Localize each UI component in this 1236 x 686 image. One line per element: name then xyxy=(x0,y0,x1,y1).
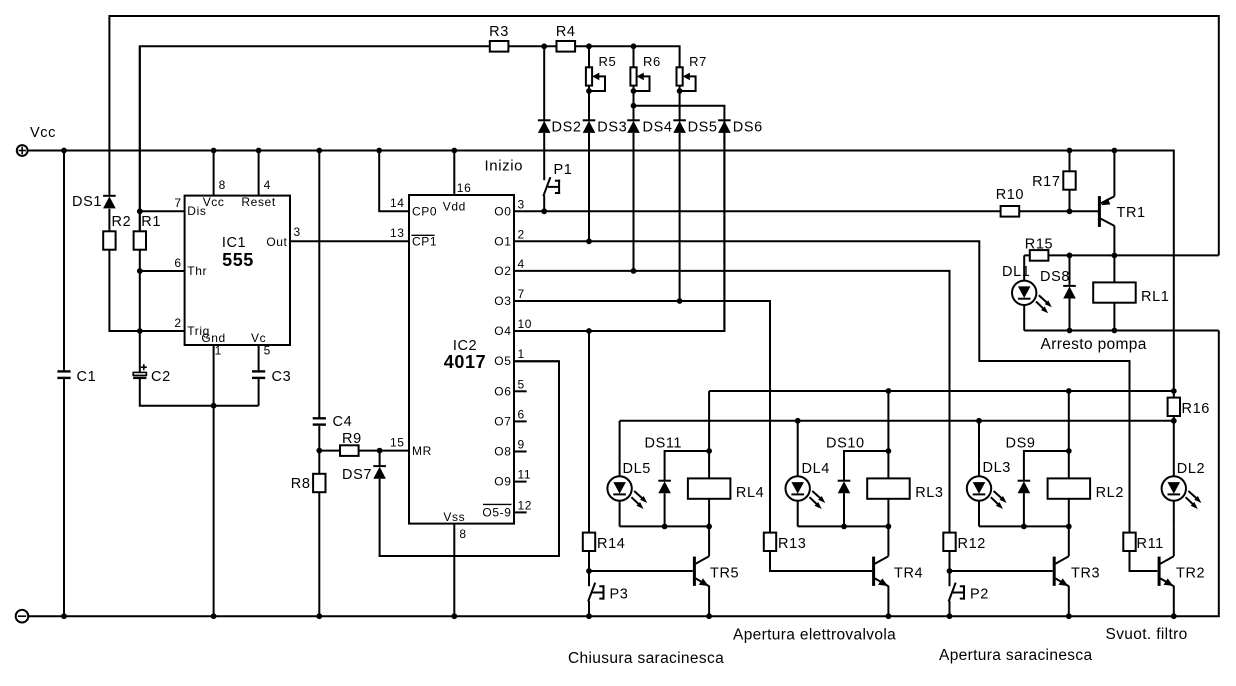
junction row / RL1 / TR1 xyxy=(1112,253,1118,259)
resistor R15 xyxy=(1025,237,1053,261)
svg-text:15: 15 xyxy=(390,436,405,450)
svg-text:Chiusura saracinesca: Chiusura saracinesca xyxy=(568,650,724,667)
junction ground rail / IC1 Gnd xyxy=(211,613,217,619)
wire CP0 jog xyxy=(379,151,409,212)
wire R9 left lead xyxy=(319,450,340,452)
wire IC1 Gnd column xyxy=(213,345,215,616)
label Apertura elettrovalvola xyxy=(733,627,896,644)
svg-text:DS5: DS5 xyxy=(688,120,718,136)
LED DL3 xyxy=(967,460,1011,509)
label Apertura saracinesca xyxy=(939,647,1092,664)
wire RL3 bottom lead xyxy=(887,499,889,527)
wire IC1 Out to IC2 CP1 xyxy=(290,240,409,242)
junction row A / RL2 xyxy=(1066,388,1072,394)
junction Dis / R1 xyxy=(137,208,143,214)
wire DL4 top lead xyxy=(797,421,799,477)
svg-text:Out: Out xyxy=(266,235,287,249)
wire R3-R4 segment xyxy=(508,45,556,47)
svg-text:3: 3 xyxy=(294,225,301,239)
junction feed / R5 xyxy=(586,43,592,49)
diode DS5 xyxy=(673,120,717,136)
junction R6 wiper xyxy=(631,88,637,94)
capacitor C1 xyxy=(57,369,96,385)
junction ground / P3 xyxy=(586,613,592,619)
wire O4 row xyxy=(514,121,724,331)
junction O2 / DS4 xyxy=(631,268,637,274)
label Chiusura saracinesca xyxy=(568,650,724,667)
svg-text:C2: C2 xyxy=(151,369,171,385)
junction Vcc rail / R17 xyxy=(1067,148,1073,154)
junction DS11 / RL4 column xyxy=(706,448,712,454)
wire R6 to DS4 xyxy=(633,91,635,122)
junction bottom row / RL1 xyxy=(1112,328,1118,334)
svg-text:R8: R8 xyxy=(291,476,311,492)
wire R17 top lead xyxy=(1069,151,1071,172)
junction O3 / DS5 xyxy=(677,298,683,304)
wire top border (feedback to TR1 emitter node) xyxy=(109,16,1218,255)
junction ground rail / Vss xyxy=(451,613,457,619)
svg-text:RL4: RL4 xyxy=(736,485,764,501)
svg-text:9: 9 xyxy=(518,438,525,452)
resistor R16 xyxy=(1168,398,1210,417)
wire module3 bottom row xyxy=(979,525,1069,527)
svg-text:8: 8 xyxy=(219,178,226,192)
junction R17 / TR1 base xyxy=(1067,208,1073,214)
wire C4 column xyxy=(318,151,320,451)
svg-text:DS9: DS9 xyxy=(1006,436,1036,452)
svg-text:P2: P2 xyxy=(970,587,989,603)
svg-text:2: 2 xyxy=(174,316,181,330)
junction ground rail / C1 xyxy=(61,613,67,619)
transistor TR5 (NPN) xyxy=(694,526,739,616)
wire Dis stub xyxy=(140,210,185,212)
svg-text:R14: R14 xyxy=(597,536,625,552)
wire R8 to ground xyxy=(318,492,320,616)
svg-text:8: 8 xyxy=(459,527,466,541)
svg-text:RL1: RL1 xyxy=(1141,289,1169,305)
junction O1 / DS3 xyxy=(586,238,592,244)
svg-text:O7: O7 xyxy=(494,414,511,428)
svg-text:3: 3 xyxy=(518,197,525,211)
svg-text:O4: O4 xyxy=(494,324,511,338)
junction C4 / R9 / R8 xyxy=(316,448,322,454)
svg-text:DL1: DL1 xyxy=(1002,264,1030,280)
wire RL1 top lead xyxy=(1113,255,1115,282)
resistor R12 xyxy=(943,533,986,552)
wire O0 row xyxy=(514,210,1001,212)
wire Vcc rail xyxy=(28,151,1174,392)
svg-text:Apertura elettrovalvola: Apertura elettrovalvola xyxy=(733,627,896,644)
resistor R2 xyxy=(103,214,131,250)
svg-text:6: 6 xyxy=(174,256,181,270)
svg-text:P3: P3 xyxy=(610,587,629,603)
wire row B (LED supply) xyxy=(620,420,1174,422)
Vcc supply terminal (+) xyxy=(17,125,56,156)
svg-text:DL3: DL3 xyxy=(983,460,1011,476)
svg-text:555: 555 xyxy=(222,250,254,270)
junction Vcc rail / CP0 xyxy=(376,148,382,154)
junction bottom / RL4 / TR5 xyxy=(706,524,712,530)
svg-text:R15: R15 xyxy=(1025,237,1053,253)
relay RL1 xyxy=(1093,282,1169,305)
svg-text:14: 14 xyxy=(390,196,405,210)
svg-text:R13: R13 xyxy=(778,536,806,552)
relay RL3 xyxy=(867,478,943,501)
resistor R17 xyxy=(1032,171,1076,190)
svg-text:Vdd: Vdd xyxy=(443,200,466,214)
pushbutton P3 xyxy=(588,571,628,616)
junction ground / TR3 emitter xyxy=(1066,613,1072,619)
wire DL3 bottom lead xyxy=(978,501,980,527)
transistor TR2 (NPN) xyxy=(1159,526,1205,616)
svg-text:DS8: DS8 xyxy=(1040,269,1070,285)
wire TR5 base row xyxy=(589,570,693,572)
svg-text:Reset: Reset xyxy=(241,195,275,209)
svg-text:R2: R2 xyxy=(112,214,132,230)
junction R9 / DS7 / MR xyxy=(377,448,383,454)
capacitor C4 xyxy=(313,414,353,430)
svg-text:DL5: DL5 xyxy=(623,461,651,477)
wire IC2 Vss column xyxy=(453,524,455,617)
wire DL2 top lead xyxy=(1173,421,1175,477)
wire IC2 Vdd pin 16 column xyxy=(453,151,455,196)
svg-text:4017: 4017 xyxy=(444,352,486,372)
svg-text:10: 10 xyxy=(518,317,533,331)
wire R13 bottom lead xyxy=(770,551,872,571)
svg-text:DS11: DS11 xyxy=(645,436,683,452)
junction Vcc rail / C1 xyxy=(61,148,67,154)
diode DS8 xyxy=(1040,269,1076,299)
svg-text:RL3: RL3 xyxy=(915,485,943,501)
svg-text:DS3: DS3 xyxy=(597,120,627,136)
svg-text:P1: P1 xyxy=(554,162,573,178)
pushbutton P2 xyxy=(949,571,989,616)
wire R1 to C2 xyxy=(139,250,141,373)
pin stub y=481.6 xyxy=(514,481,527,483)
svg-text:R3: R3 xyxy=(489,24,509,40)
wire RL3 column top xyxy=(887,391,889,478)
svg-text:C1: C1 xyxy=(77,369,97,385)
junction ground / TR2 emitter xyxy=(1171,613,1177,619)
svg-text:13: 13 xyxy=(390,226,405,240)
svg-text:R10: R10 xyxy=(996,187,1024,203)
wire DL4 bottom lead xyxy=(797,501,799,527)
svg-text:R6: R6 xyxy=(643,54,661,69)
junction row / DS8 xyxy=(1067,253,1073,259)
wire DL1 branch xyxy=(1023,255,1025,280)
wire C3 to bottom row xyxy=(258,379,260,406)
wire Thr stub xyxy=(140,270,185,272)
trimmer R5 xyxy=(586,54,616,92)
svg-text:Inizio: Inizio xyxy=(485,157,524,174)
svg-text:TR4: TR4 xyxy=(894,566,923,582)
resistor R9 xyxy=(340,431,362,456)
LED DL5 xyxy=(607,461,651,509)
wire R5 to DS3 xyxy=(588,91,590,122)
svg-text:5: 5 xyxy=(518,377,525,391)
svg-text:CP0: CP0 xyxy=(412,205,437,219)
label Svuot. filtro xyxy=(1106,626,1188,643)
wire R14 top lead xyxy=(588,331,590,533)
wire R2 to Trig row xyxy=(109,250,184,331)
resistor R8 xyxy=(291,474,326,492)
svg-text:O1: O1 xyxy=(494,234,511,248)
pin stub y=421.4 xyxy=(514,420,527,422)
junction row B / DL3 xyxy=(976,418,982,424)
capacitor C3 xyxy=(252,369,291,385)
wire DS5 to O3 xyxy=(679,133,681,301)
wire O2 row + jog to R12 xyxy=(514,271,950,533)
wire DS7 to O5 xyxy=(380,361,559,556)
wire O5 stub xyxy=(514,360,559,362)
pin stub y=512.4 xyxy=(514,511,527,513)
junction R5 wiper xyxy=(586,88,592,94)
wire O1 row + jog to R11 xyxy=(514,241,1130,532)
svg-text:6: 6 xyxy=(518,407,525,421)
junction R14 / P3 / TR5 base xyxy=(586,568,592,574)
junction R7 wiper xyxy=(677,88,683,94)
svg-text:DL4: DL4 xyxy=(802,461,830,477)
label Arresto pompa xyxy=(1041,336,1147,353)
svg-text:R12: R12 xyxy=(958,536,986,552)
svg-text:O8: O8 xyxy=(494,445,511,459)
svg-text:R17: R17 xyxy=(1032,174,1060,190)
junction O0 / P1 / DS2 xyxy=(541,208,547,214)
svg-text:IC1: IC1 xyxy=(222,235,246,251)
junction R3-R4 / DS2 xyxy=(541,43,547,49)
svg-text:Dis: Dis xyxy=(187,204,206,218)
svg-text:DL2: DL2 xyxy=(1177,461,1205,477)
junction ground / TR5 emitter xyxy=(706,613,712,619)
svg-text:C3: C3 xyxy=(272,369,292,385)
resistor R13 xyxy=(764,533,807,552)
wire R8 top lead xyxy=(318,451,320,474)
svg-text:TR3: TR3 xyxy=(1071,566,1100,582)
resistor R14 xyxy=(583,533,626,552)
svg-text:DS2: DS2 xyxy=(552,120,582,136)
junction row A / Vcc column xyxy=(1171,388,1177,394)
wire DL5 bottom lead xyxy=(619,501,621,527)
wire DS9 bottom lead xyxy=(1023,493,1025,526)
wire R5 top lead xyxy=(588,46,590,67)
junction Vcc rail / IC1 pin8 xyxy=(211,148,217,154)
svg-text:1: 1 xyxy=(215,344,222,358)
junction bottom / DS11 xyxy=(662,524,668,530)
junction Vcc rail / IC2 Vdd xyxy=(451,148,457,154)
wire R7 to DS5 xyxy=(679,91,681,122)
svg-text:O3: O3 xyxy=(494,294,511,308)
wire DL2 to TR2 collector xyxy=(1173,501,1175,527)
junction DS9 / RL2 column xyxy=(1066,448,1072,454)
svg-text:RL2: RL2 xyxy=(1096,485,1124,501)
svg-text:DS1: DS1 xyxy=(72,194,102,210)
junction bottom row / Gnd column xyxy=(211,403,217,409)
wire IC1 Reset pin 4 column xyxy=(258,151,260,196)
transistor TR1 (PNP) xyxy=(1099,151,1145,256)
wire DS10 top xyxy=(844,451,888,481)
svg-text:R4: R4 xyxy=(556,24,576,40)
diode DS9 xyxy=(1006,436,1036,494)
svg-text:MR: MR xyxy=(412,444,432,458)
svg-text:O5: O5 xyxy=(494,354,511,368)
capacitor C2 (electrolytic) xyxy=(133,364,171,385)
LED DL1 xyxy=(1002,264,1052,313)
LED DL4 xyxy=(786,461,830,509)
wire DS1 branch xyxy=(108,209,110,232)
wire R17 bottom lead xyxy=(1069,190,1071,212)
transistor TR4 (NPN) xyxy=(874,526,924,616)
relay RL4 xyxy=(688,478,764,501)
wire row A (relay supply) xyxy=(709,390,1174,392)
wire DS3 to O1 xyxy=(588,133,590,241)
wire R11 bottom lead xyxy=(1130,551,1158,571)
relay RL2 xyxy=(1048,478,1124,501)
wire TR1 emitter row xyxy=(1024,254,1219,256)
wire IC1 Vc pin 5 column xyxy=(258,345,260,370)
svg-text:Vcc: Vcc xyxy=(30,125,56,141)
wire R4 to trimmers xyxy=(575,46,680,67)
svg-text:TR2: TR2 xyxy=(1176,566,1205,582)
wire DS2 column xyxy=(543,46,545,121)
svg-text:R5: R5 xyxy=(599,54,617,69)
diode DS1 xyxy=(72,194,116,210)
svg-text:C4: C4 xyxy=(333,414,353,430)
svg-text:O2: O2 xyxy=(494,264,511,278)
svg-text:TR1: TR1 xyxy=(1117,205,1146,221)
junction ground / P2 xyxy=(947,613,953,619)
junction R12 / P2 / TR3 base xyxy=(947,568,953,574)
wire RL4 bottom lead xyxy=(708,499,710,527)
junction feed / R6 xyxy=(631,43,637,49)
wire R12 bottom lead xyxy=(949,551,951,571)
svg-text:O5-9: O5-9 xyxy=(482,505,511,519)
svg-text:1: 1 xyxy=(518,347,525,361)
svg-text:7: 7 xyxy=(518,287,525,301)
wire module1 bottom row to ground xyxy=(1024,330,1219,332)
junction ground rail / R8 xyxy=(316,613,322,619)
wire ground rail xyxy=(28,331,1219,617)
svg-text:R16: R16 xyxy=(1182,401,1210,417)
junction bottom / DS9 xyxy=(1021,524,1027,530)
wire R1 column xyxy=(139,46,141,231)
wire module5 bottom row xyxy=(620,525,710,527)
wire C1 column xyxy=(63,151,65,617)
junction row B / R16 / DL2 xyxy=(1171,418,1177,424)
svg-text:5: 5 xyxy=(264,344,271,358)
pin stub y=451.5 xyxy=(514,451,527,453)
junction Trig / C2 column xyxy=(137,328,143,334)
IC2 4017 counter xyxy=(390,181,532,541)
wire DS10 bottom lead xyxy=(843,493,845,526)
diode DS2 xyxy=(538,120,582,136)
wire DS2 to P1 xyxy=(543,133,545,180)
ground terminal (-) xyxy=(16,610,29,623)
svg-text:16: 16 xyxy=(457,181,472,195)
svg-text:O9: O9 xyxy=(494,475,511,489)
wire MR stub xyxy=(380,450,409,452)
wire RL1 bottom lead xyxy=(1113,303,1115,331)
resistor R3 xyxy=(489,24,509,52)
pushbutton P1 (Inizio) xyxy=(485,157,573,211)
svg-text:4: 4 xyxy=(264,178,271,192)
wire R10 to TR1 base xyxy=(1019,210,1098,212)
svg-text:DS6: DS6 xyxy=(733,120,763,136)
wire DL1 to bottom row xyxy=(1023,305,1025,331)
svg-text:CP1: CP1 xyxy=(412,235,437,249)
diode DS3 xyxy=(583,120,628,136)
junction row B / DL4 xyxy=(795,418,801,424)
pin stub y=391.3 xyxy=(514,390,527,392)
svg-text:Gnd: Gnd xyxy=(201,331,225,345)
svg-text:2: 2 xyxy=(518,227,525,241)
svg-text:12: 12 xyxy=(518,498,533,512)
IC1 555 timer xyxy=(174,178,300,358)
wire DS7 top lead xyxy=(379,451,381,467)
LED DL2 xyxy=(1162,461,1206,509)
resistor R1 xyxy=(134,214,161,250)
wire C2 to bottom row xyxy=(140,379,259,406)
trimmer R7 xyxy=(677,54,707,92)
svg-text:11: 11 xyxy=(518,468,532,482)
junction row A / RL3 xyxy=(886,388,892,394)
wire DL5 top lead xyxy=(619,421,621,477)
wire DS11 bottom lead xyxy=(664,493,666,526)
diode DS11 xyxy=(645,436,683,494)
junction Thr / R1 xyxy=(137,268,143,274)
junction Vcc rail / TR1 emitter xyxy=(1112,148,1118,154)
diode DS4 xyxy=(627,120,672,136)
diode DS7 xyxy=(342,466,386,483)
resistor R4 xyxy=(556,24,576,52)
wire O3 row + jog to R13 xyxy=(514,301,770,533)
svg-text:O0: O0 xyxy=(494,204,511,218)
svg-text:R11: R11 xyxy=(1137,536,1164,552)
junction O4 / R14 xyxy=(586,328,592,334)
junction R6 / DS6 branch xyxy=(631,103,637,109)
svg-text:O6: O6 xyxy=(494,384,511,398)
svg-text:Thr: Thr xyxy=(187,264,207,278)
junction Vcc rail / C4 xyxy=(316,148,322,154)
diode DS6 xyxy=(718,120,763,136)
wire RL4 column top xyxy=(708,391,710,478)
junction bottom / DS10 xyxy=(841,524,847,530)
wire R14 bottom lead xyxy=(588,551,590,571)
junction ground / TR4 emitter xyxy=(886,613,892,619)
wire DS6 branch xyxy=(634,106,725,121)
junction bottom / RL2 / TR3 xyxy=(1066,524,1072,530)
wire DL3 top lead xyxy=(978,421,980,477)
junction bottom row / DS8 xyxy=(1067,328,1073,334)
svg-text:R1: R1 xyxy=(141,214,161,230)
junction bottom / RL3 / TR4 xyxy=(886,524,892,530)
svg-text:Svuot. filtro: Svuot. filtro xyxy=(1106,626,1188,643)
svg-text:R9: R9 xyxy=(342,431,362,447)
wire DS8 leads xyxy=(1069,255,1071,330)
wire RL2 bottom lead xyxy=(1068,499,1070,527)
svg-text:DS7: DS7 xyxy=(342,467,372,483)
wire R9 right lead xyxy=(359,450,380,452)
wire R6 top lead xyxy=(633,46,635,67)
resistor R10 xyxy=(996,187,1024,217)
wire R16 leads xyxy=(1173,391,1175,421)
junction Vcc rail / IC1 pin4 xyxy=(256,148,262,154)
wire DS9 top xyxy=(1024,451,1069,481)
wire DS4 to O2 xyxy=(633,133,635,271)
svg-text:4: 4 xyxy=(518,257,525,271)
resistor R11 xyxy=(1123,533,1164,552)
svg-text:Arresto pompa: Arresto pompa xyxy=(1041,336,1147,353)
diode DS10 xyxy=(826,436,865,494)
